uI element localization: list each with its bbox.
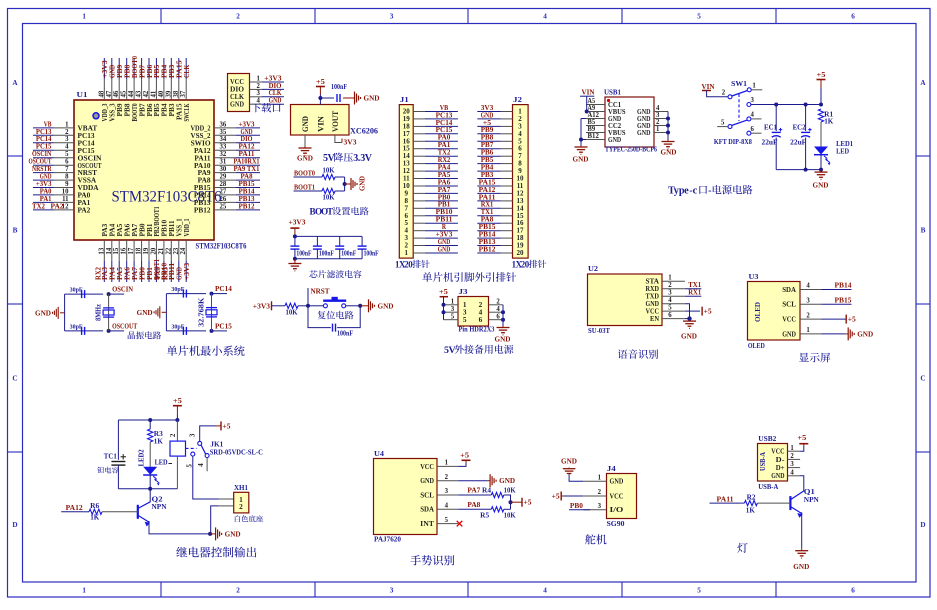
svg-text:+5: +5 xyxy=(223,421,231,430)
svg-text:30pF: 30pF xyxy=(70,323,83,330)
svg-text:GND: GND xyxy=(793,562,810,571)
svg-text:USB-A: USB-A xyxy=(758,482,779,491)
svg-text:35: 35 xyxy=(220,129,227,136)
svg-text:OLED: OLED xyxy=(753,302,762,322)
svg-text:1: 1 xyxy=(752,82,756,89)
svg-text:NRST: NRST xyxy=(311,287,330,296)
svg-text:9: 9 xyxy=(65,181,69,188)
svg-text:2: 2 xyxy=(598,489,602,496)
svg-text:30pF: 30pF xyxy=(171,286,184,293)
svg-text:33: 33 xyxy=(220,144,227,151)
svg-text:6: 6 xyxy=(851,13,855,21)
svg-text:10K: 10K xyxy=(323,195,336,202)
svg-text:GND: GND xyxy=(610,477,624,486)
svg-text:2: 2 xyxy=(170,433,177,437)
svg-text:32: 32 xyxy=(220,151,227,158)
svg-text:2: 2 xyxy=(656,119,660,126)
svg-text:RX3: RX3 xyxy=(160,267,169,280)
svg-text:1K: 1K xyxy=(824,117,833,126)
svg-text:6: 6 xyxy=(751,126,755,133)
svg-text:10K: 10K xyxy=(286,310,299,317)
svg-text:GND: GND xyxy=(420,476,434,485)
svg-text:37: 37 xyxy=(180,90,187,97)
svg-text:OSCOUT: OSCOUT xyxy=(112,321,137,330)
svg-text:GND: GND xyxy=(771,471,784,480)
svg-text:4: 4 xyxy=(543,13,547,21)
svg-text:100nF: 100nF xyxy=(364,251,379,258)
svg-text:3: 3 xyxy=(257,90,261,97)
svg-text:+5: +5 xyxy=(524,498,532,507)
svg-text:GND: GND xyxy=(661,148,678,157)
svg-text:GND: GND xyxy=(269,96,282,105)
svg-text:TC1: TC1 xyxy=(104,452,117,461)
svg-text:B5: B5 xyxy=(588,119,596,126)
svg-text:4: 4 xyxy=(65,144,69,151)
svg-text:4: 4 xyxy=(656,105,660,112)
svg-text:44: 44 xyxy=(128,90,135,97)
svg-text:GND: GND xyxy=(359,176,367,191)
svg-text:13: 13 xyxy=(98,247,105,254)
svg-text:3: 3 xyxy=(451,306,455,313)
svg-text:OLED: OLED xyxy=(748,341,765,350)
svg-text:GND: GND xyxy=(608,136,621,144)
svg-text:5: 5 xyxy=(721,119,725,126)
svg-text:PA2: PA2 xyxy=(78,206,91,215)
svg-text:PC14: PC14 xyxy=(215,284,232,293)
svg-text:GND: GND xyxy=(301,116,310,132)
svg-text:3: 3 xyxy=(390,13,394,21)
svg-text:30pF: 30pF xyxy=(70,287,83,294)
svg-text:24: 24 xyxy=(180,247,187,254)
svg-text:3: 3 xyxy=(189,433,196,437)
svg-text:40: 40 xyxy=(158,90,165,97)
svg-text:4: 4 xyxy=(751,112,755,119)
svg-text:2: 2 xyxy=(236,587,240,595)
svg-text:USB2: USB2 xyxy=(758,434,776,443)
svg-text:B: B xyxy=(13,227,18,235)
svg-text:PA8: PA8 xyxy=(467,500,480,509)
svg-text:GND: GND xyxy=(495,335,512,344)
svg-text:GND: GND xyxy=(561,457,577,466)
svg-text:2: 2 xyxy=(722,89,726,96)
svg-text:A5: A5 xyxy=(588,98,596,105)
svg-text:J2: J2 xyxy=(513,95,522,104)
svg-text:3: 3 xyxy=(790,461,794,468)
svg-text:J4: J4 xyxy=(607,464,616,473)
svg-text:1: 1 xyxy=(445,460,449,467)
svg-text:R2: R2 xyxy=(747,492,756,501)
svg-text:PA7: PA7 xyxy=(467,486,480,495)
svg-text:34: 34 xyxy=(220,136,227,143)
svg-text:SDA: SDA xyxy=(420,505,434,514)
svg-text:GND: GND xyxy=(813,181,830,190)
svg-text:1: 1 xyxy=(451,298,455,305)
svg-text:5: 5 xyxy=(65,151,69,158)
svg-text:8: 8 xyxy=(65,174,69,181)
svg-text:NPN: NPN xyxy=(152,502,168,511)
svg-text:SW1: SW1 xyxy=(731,79,747,88)
svg-text:4: 4 xyxy=(445,503,449,510)
svg-text:U1: U1 xyxy=(77,90,88,99)
svg-text:3: 3 xyxy=(806,298,810,305)
svg-text:GND: GND xyxy=(499,476,516,485)
svg-text:R6: R6 xyxy=(90,501,99,510)
svg-text:VDD_1: VDD_1 xyxy=(182,218,191,236)
svg-text:A: A xyxy=(920,79,926,87)
svg-text:5: 5 xyxy=(668,305,672,312)
svg-text:PA2: PA2 xyxy=(51,201,64,210)
svg-text:0: 0 xyxy=(525,259,530,269)
svg-text:A9: A9 xyxy=(588,105,596,112)
svg-text:1K: 1K xyxy=(90,512,99,521)
svg-text:NPN: NPN xyxy=(804,495,820,504)
svg-text:1: 1 xyxy=(82,13,86,21)
svg-text:3: 3 xyxy=(751,97,755,104)
svg-text:25: 25 xyxy=(220,203,227,210)
svg-text:1K: 1K xyxy=(746,505,755,514)
svg-text:SDA: SDA xyxy=(782,285,796,294)
svg-text:LED: LED xyxy=(836,147,849,156)
svg-text:31: 31 xyxy=(220,159,227,166)
svg-text:+5: +5 xyxy=(460,451,469,460)
svg-text:T: T xyxy=(327,207,333,217)
svg-text:4: 4 xyxy=(496,306,500,313)
svg-text:SCL: SCL xyxy=(420,490,434,499)
svg-text:B: B xyxy=(921,227,926,235)
svg-text:XC6206: XC6206 xyxy=(350,127,378,136)
svg-text:+5: +5 xyxy=(316,77,325,86)
svg-text:2: 2 xyxy=(496,298,500,305)
svg-text:3: 3 xyxy=(445,488,449,495)
svg-text:PA12: PA12 xyxy=(66,503,83,512)
svg-text:PAJ7620: PAJ7620 xyxy=(374,535,401,544)
svg-text:2: 2 xyxy=(236,13,240,21)
svg-text:47: 47 xyxy=(106,90,113,97)
svg-text:SWCLK: SWCLK xyxy=(182,103,191,121)
svg-text:BOOT0: BOOT0 xyxy=(294,168,315,177)
svg-text:CLK: CLK xyxy=(182,65,191,78)
svg-text:PB15: PB15 xyxy=(835,296,852,305)
svg-text:1: 1 xyxy=(82,587,86,595)
svg-text:-: - xyxy=(708,186,712,197)
svg-text:SCL: SCL xyxy=(782,300,796,309)
svg-text:45: 45 xyxy=(121,90,128,97)
svg-text:VCC: VCC xyxy=(420,462,434,471)
svg-text:PB12: PB12 xyxy=(194,206,211,215)
svg-text:GND: GND xyxy=(438,244,451,253)
svg-text:14: 14 xyxy=(106,247,113,254)
svg-text:1: 1 xyxy=(65,121,69,128)
svg-text:6: 6 xyxy=(668,312,672,319)
svg-text:PA11: PA11 xyxy=(717,495,734,504)
svg-text:3: 3 xyxy=(65,136,69,143)
svg-text:VCC: VCC xyxy=(610,491,624,500)
svg-text:20: 20 xyxy=(150,247,157,254)
svg-text:EC1: EC1 xyxy=(764,123,777,132)
svg-text:1: 1 xyxy=(806,327,810,334)
svg-text:15: 15 xyxy=(113,247,120,254)
svg-text:GND: GND xyxy=(137,308,153,317)
svg-text:STM32F103C8T6: STM32F103C8T6 xyxy=(196,242,247,251)
svg-text:3: 3 xyxy=(390,587,394,595)
svg-text:PB0: PB0 xyxy=(570,501,583,510)
svg-text:30: 30 xyxy=(220,166,227,173)
svg-text:41: 41 xyxy=(150,90,157,97)
svg-text:VOUT: VOUT xyxy=(331,110,340,132)
svg-text:+5: +5 xyxy=(817,70,826,79)
svg-text:3: 3 xyxy=(656,112,660,119)
svg-text:2: 2 xyxy=(806,312,810,319)
svg-text:U4: U4 xyxy=(374,449,384,458)
svg-text:Pin HDR2X3: Pin HDR2X3 xyxy=(459,325,495,334)
svg-text:23: 23 xyxy=(173,247,180,254)
svg-text:38: 38 xyxy=(173,90,180,97)
svg-text:5: 5 xyxy=(697,587,701,595)
svg-text:A12: A12 xyxy=(588,112,600,119)
svg-text:GND: GND xyxy=(225,529,242,538)
svg-text:28: 28 xyxy=(220,181,227,188)
svg-text:+3V3: +3V3 xyxy=(182,262,191,280)
svg-text:5: 5 xyxy=(445,517,449,524)
svg-text:V: V xyxy=(365,153,373,164)
svg-text:17: 17 xyxy=(128,247,135,254)
svg-text:GND: GND xyxy=(230,99,244,108)
svg-text:2: 2 xyxy=(257,83,261,90)
svg-text:2: 2 xyxy=(790,453,794,460)
svg-text:EN: EN xyxy=(650,314,660,323)
svg-text:26: 26 xyxy=(220,196,227,203)
svg-text:100nF: 100nF xyxy=(319,251,334,258)
svg-text:1: 1 xyxy=(668,275,672,282)
svg-text:LED: LED xyxy=(155,458,168,467)
svg-text:4: 4 xyxy=(668,297,672,304)
svg-text:+5: +5 xyxy=(797,433,806,442)
svg-text:+3V3: +3V3 xyxy=(253,301,270,310)
svg-text:36: 36 xyxy=(220,121,227,128)
svg-text:R5: R5 xyxy=(480,511,489,520)
svg-text:+3V3: +3V3 xyxy=(289,218,306,227)
svg-text:PC15: PC15 xyxy=(215,321,232,330)
svg-text:OSCIN: OSCIN xyxy=(112,285,134,294)
svg-text:RX2: RX2 xyxy=(93,267,102,280)
svg-text:U2: U2 xyxy=(588,264,598,273)
svg-text:10K: 10K xyxy=(323,168,336,175)
svg-text:10K: 10K xyxy=(504,486,516,495)
svg-text:1: 1 xyxy=(656,126,660,133)
svg-text:4: 4 xyxy=(790,469,794,476)
svg-text:GND: GND xyxy=(364,94,381,103)
svg-text:VCC: VCC xyxy=(782,315,796,324)
svg-text:+5: +5 xyxy=(704,307,712,316)
svg-text:10: 10 xyxy=(62,188,69,195)
svg-text:4: 4 xyxy=(543,587,547,595)
svg-text:100nF: 100nF xyxy=(337,331,353,338)
svg-text:SU-03T: SU-03T xyxy=(588,326,610,335)
svg-text:INT: INT xyxy=(420,519,434,528)
svg-text:5: 5 xyxy=(697,13,701,21)
svg-text:46: 46 xyxy=(113,90,120,97)
svg-text:27: 27 xyxy=(220,188,227,195)
svg-text:SG90: SG90 xyxy=(607,519,625,528)
svg-text:2: 2 xyxy=(65,129,69,136)
svg-text:4: 4 xyxy=(198,463,205,467)
svg-text:22uF: 22uF xyxy=(762,138,779,147)
svg-text:3: 3 xyxy=(598,503,602,510)
svg-text:+5: +5 xyxy=(552,492,560,501)
svg-text:EC2: EC2 xyxy=(793,123,806,132)
svg-text:VIN: VIN xyxy=(702,82,716,91)
svg-text:5: 5 xyxy=(463,315,467,324)
svg-text:1: 1 xyxy=(257,75,261,82)
svg-text:100nF: 100nF xyxy=(331,84,347,91)
svg-text:J3: J3 xyxy=(459,287,468,296)
svg-text:D: D xyxy=(920,521,925,529)
svg-text:GND: GND xyxy=(297,154,314,163)
svg-text:D: D xyxy=(12,521,17,529)
svg-text:USB1: USB1 xyxy=(604,88,621,97)
svg-text:8MHz: 8MHz xyxy=(95,304,103,321)
svg-text:KFT DIP-8X8: KFT DIP-8X8 xyxy=(714,137,752,146)
svg-text:A: A xyxy=(12,79,18,87)
svg-text:10K: 10K xyxy=(504,511,516,520)
svg-text:C: C xyxy=(12,375,17,383)
svg-text:6: 6 xyxy=(851,587,855,595)
svg-text:2: 2 xyxy=(445,474,449,481)
svg-text:GND: GND xyxy=(573,155,590,164)
svg-text:RX1: RX1 xyxy=(688,288,701,297)
svg-text:+5: +5 xyxy=(173,396,182,405)
svg-text:2: 2 xyxy=(239,502,243,511)
svg-text:GND: GND xyxy=(378,301,395,310)
svg-text:SRD-05VDC-SL-C: SRD-05VDC-SL-C xyxy=(210,447,263,456)
svg-text:GND: GND xyxy=(35,309,51,318)
svg-text:GND: GND xyxy=(857,329,874,338)
svg-text:GND: GND xyxy=(637,129,651,137)
svg-text:1K: 1K xyxy=(154,436,163,445)
svg-text:BOOT1: BOOT1 xyxy=(294,182,315,191)
svg-text:19: 19 xyxy=(143,247,150,254)
svg-text:39: 39 xyxy=(165,90,172,97)
svg-text:3: 3 xyxy=(668,290,672,297)
svg-text:42: 42 xyxy=(143,90,150,97)
svg-text:43: 43 xyxy=(136,90,143,97)
svg-text:21: 21 xyxy=(158,247,165,254)
svg-text:18: 18 xyxy=(136,247,143,254)
svg-text:c: c xyxy=(693,186,698,197)
svg-text:LED2: LED2 xyxy=(137,449,145,466)
svg-text:100nF: 100nF xyxy=(341,251,356,258)
svg-text:I/O: I/O xyxy=(610,505,624,514)
svg-text:PB14: PB14 xyxy=(835,281,852,290)
svg-text:U3: U3 xyxy=(749,272,759,281)
svg-text:VIN: VIN xyxy=(582,88,596,97)
svg-text:29: 29 xyxy=(220,174,227,181)
svg-text:6: 6 xyxy=(479,315,483,324)
svg-text:100nF: 100nF xyxy=(296,251,311,258)
svg-text:5: 5 xyxy=(451,313,455,320)
svg-text:3V3: 3V3 xyxy=(344,138,357,147)
svg-text:VIN: VIN xyxy=(316,116,325,132)
svg-text:4: 4 xyxy=(806,283,810,290)
svg-text:32.768K: 32.768K xyxy=(198,297,206,327)
svg-text:USB-A: USB-A xyxy=(760,452,767,471)
svg-text:C: C xyxy=(920,375,925,383)
svg-text:PB12: PB12 xyxy=(479,244,496,253)
svg-text:6: 6 xyxy=(65,159,69,166)
svg-text:PB12: PB12 xyxy=(239,201,255,210)
svg-text:48: 48 xyxy=(98,90,105,97)
svg-text:XH1: XH1 xyxy=(234,483,248,492)
svg-text:20: 20 xyxy=(517,249,525,257)
svg-text:6: 6 xyxy=(496,313,500,320)
svg-text:GND: GND xyxy=(782,329,796,338)
svg-text:R4: R4 xyxy=(482,486,491,495)
svg-text:16: 16 xyxy=(121,247,128,254)
svg-text:J1: J1 xyxy=(400,95,409,104)
svg-text:GND: GND xyxy=(681,332,698,341)
svg-text:0: 0 xyxy=(408,259,413,269)
svg-text:30pF: 30pF xyxy=(171,323,184,330)
svg-text:V: V xyxy=(449,345,457,356)
svg-text:22: 22 xyxy=(165,247,172,254)
svg-text:22uF: 22uF xyxy=(790,138,807,147)
svg-text:+5: +5 xyxy=(439,287,448,296)
svg-text:2: 2 xyxy=(668,282,672,289)
svg-text:B9: B9 xyxy=(588,126,596,133)
svg-text:1: 1 xyxy=(405,249,409,257)
svg-text:1: 1 xyxy=(598,475,602,482)
svg-text:7: 7 xyxy=(65,166,69,173)
svg-text:TX2: TX2 xyxy=(32,201,45,210)
svg-text:TYPEC-250D-BCP6: TYPEC-250D-BCP6 xyxy=(605,145,657,153)
svg-text:1: 1 xyxy=(790,445,794,452)
svg-text:+5: +5 xyxy=(848,315,856,324)
svg-text:B12: B12 xyxy=(588,133,600,140)
